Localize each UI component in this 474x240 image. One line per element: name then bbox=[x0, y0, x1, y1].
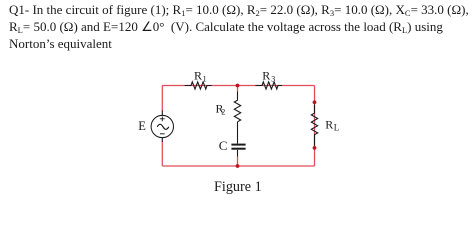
svg-text:L: L bbox=[334, 122, 340, 132]
svg-text:R: R bbox=[262, 69, 270, 83]
label R1 bbox=[194, 69, 207, 84]
svg-text:1: 1 bbox=[203, 75, 207, 84]
AC source U1 leads bbox=[161, 111, 163, 143]
node B (bottom middle junction) bbox=[236, 164, 240, 168]
svg-text:R: R bbox=[325, 117, 333, 131]
svg-text:2: 2 bbox=[221, 108, 225, 117]
svg-text:Figure 1: Figure 1 bbox=[214, 179, 262, 195]
svg-text:C: C bbox=[219, 138, 228, 153]
AC source minus sign bbox=[160, 133, 165, 135]
wire: top side bbox=[162, 86, 314, 167]
AC source sine symbol bbox=[157, 124, 169, 129]
node A (top middle junction) bbox=[236, 84, 240, 88]
wire: right side bbox=[314, 86, 316, 167]
node D (RL bottom terminal) bbox=[313, 146, 317, 150]
problem statement text bbox=[9, 1, 474, 52]
label R3 bbox=[262, 69, 275, 84]
node C (RL top terminal) bbox=[313, 100, 317, 104]
svg-text:3: 3 bbox=[271, 75, 275, 84]
label R2 bbox=[216, 102, 226, 117]
AC source plus sign bbox=[160, 116, 165, 121]
svg-text:E: E bbox=[138, 119, 146, 133]
wire: left side bbox=[161, 86, 163, 112]
resistor R2 (vertical) bbox=[234, 92, 240, 122]
resistor R3 bbox=[256, 82, 283, 89]
wire: middle branch (node A to node B) bbox=[237, 86, 239, 92]
label RL bbox=[325, 117, 339, 132]
wire: bottom side bbox=[162, 165, 314, 167]
svg-text:R: R bbox=[194, 69, 202, 83]
AC source E circle bbox=[151, 115, 173, 137]
resistor RL (vertical) bbox=[311, 105, 317, 146]
resistor R1 bbox=[185, 82, 212, 89]
capacitor C bbox=[231, 122, 245, 157]
